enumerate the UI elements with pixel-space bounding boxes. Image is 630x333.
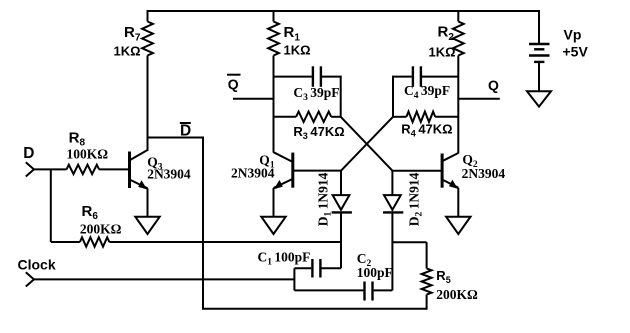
svg-text:C3 39pF: C3 39pF xyxy=(293,85,339,103)
resistor R8 xyxy=(67,130,129,175)
diode D1 xyxy=(315,171,352,269)
svg-text:+5V: +5V xyxy=(563,44,589,60)
wire cross-coupling diagonal R3 to Q2 base xyxy=(341,117,393,171)
svg-text:100KΩ: 100KΩ xyxy=(67,147,109,162)
resistor R1 xyxy=(268,10,310,58)
svg-text:2N3904: 2N3904 xyxy=(147,167,191,182)
resistor R6 xyxy=(51,203,341,247)
wire Q3 emitter xyxy=(147,188,149,216)
wire R7 to Q3 collector xyxy=(147,56,149,151)
wire D junction vertical xyxy=(50,169,52,242)
svg-text:C1 100pF: C1 100pF xyxy=(258,250,311,268)
ground battery xyxy=(527,91,551,106)
label Clock input xyxy=(18,256,56,272)
transistor Q1 xyxy=(231,152,293,189)
wire C2 feed xyxy=(294,289,363,291)
svg-text:Clock: Clock xyxy=(18,256,56,272)
wire Qbar output xyxy=(233,98,274,100)
node Clock chevron xyxy=(26,272,34,286)
svg-text:Vp: Vp xyxy=(564,27,582,43)
svg-text:Q: Q xyxy=(488,77,499,93)
svg-text:200KΩ: 200KΩ xyxy=(80,222,122,237)
capacitor C2 xyxy=(357,251,393,301)
wire Dbar vertical feedback xyxy=(202,137,204,309)
wire bottom rail xyxy=(202,308,427,310)
wire Clock xyxy=(34,278,295,280)
wire Clock riser to C1 and C2 xyxy=(293,268,295,290)
node D input chevron xyxy=(26,162,34,176)
transistor Q2 xyxy=(442,152,505,189)
wire Q1 emitter xyxy=(273,188,275,217)
resistor R4 xyxy=(393,112,458,139)
label D input xyxy=(23,145,34,162)
resistor R7 xyxy=(114,10,153,59)
svg-text:2N3904: 2N3904 xyxy=(462,166,506,181)
svg-text:1KΩ: 1KΩ xyxy=(114,44,141,59)
wire R1 to Q1 collector xyxy=(273,56,275,153)
battery Vp xyxy=(529,10,588,91)
svg-text:C4 39pF: C4 39pF xyxy=(404,83,450,101)
svg-text:R2: R2 xyxy=(438,24,455,44)
transistor Q3 xyxy=(130,150,191,190)
wire cross-coupling diagonal R4 to Q1 base xyxy=(341,117,393,171)
label Q xyxy=(488,77,499,93)
wire C4-R4 left vertical xyxy=(392,76,394,117)
wire Q2 emitter xyxy=(457,188,459,217)
wire Q1 base xyxy=(293,170,341,172)
label Qbar xyxy=(227,75,241,92)
ground Q3 xyxy=(135,217,159,234)
svg-text:R7: R7 xyxy=(124,24,141,44)
svg-text:R3 47KΩ: R3 47KΩ xyxy=(293,124,344,141)
svg-text:D: D xyxy=(23,145,34,162)
wire R2 to Q2 collector xyxy=(457,56,459,154)
svg-text:2N3904: 2N3904 xyxy=(231,165,275,180)
wire R5 top xyxy=(392,241,426,243)
diode D2 xyxy=(383,171,425,291)
resistor R2 xyxy=(429,10,464,60)
node Dbar wire xyxy=(147,137,204,139)
capacitor C1 xyxy=(258,250,342,278)
wire Q2 base xyxy=(392,170,442,172)
ground Q1 xyxy=(261,217,285,234)
svg-text:R1: R1 xyxy=(284,24,301,44)
svg-text:R4 47KΩ: R4 47KΩ xyxy=(401,122,452,139)
svg-text:R5: R5 xyxy=(436,268,450,285)
capacitor C3 xyxy=(274,66,341,103)
label Dbar xyxy=(180,122,191,139)
ground Q2 xyxy=(446,217,470,234)
wire top VCC rail xyxy=(147,10,540,12)
svg-text:100pF: 100pF xyxy=(357,265,393,280)
wire D input xyxy=(34,168,67,170)
wire Q output xyxy=(458,98,500,100)
wire C3-R3 right vertical xyxy=(340,76,342,117)
capacitor C4 xyxy=(393,66,458,101)
svg-text:D: D xyxy=(180,122,191,139)
svg-text:R6: R6 xyxy=(82,203,99,222)
svg-text:D2 1N914: D2 1N914 xyxy=(407,172,425,226)
svg-text:D1 1N914: D1 1N914 xyxy=(315,172,333,226)
svg-text:1KΩ: 1KΩ xyxy=(284,43,311,58)
resistor R5 xyxy=(422,242,478,310)
svg-text:Q: Q xyxy=(228,76,239,92)
svg-text:200KΩ: 200KΩ xyxy=(436,287,478,302)
resistor R3 xyxy=(274,112,345,141)
svg-text:1KΩ: 1KΩ xyxy=(429,45,456,60)
